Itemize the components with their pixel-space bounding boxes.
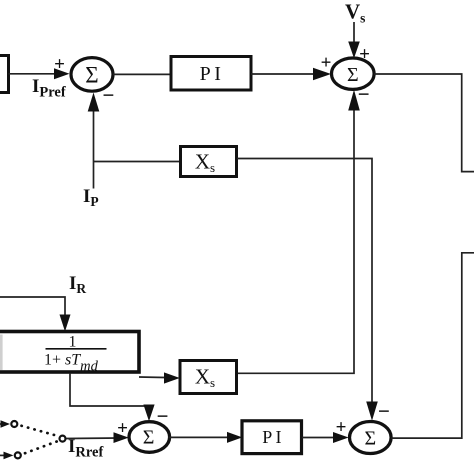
switch input 1 node (open dot) bbox=[11, 421, 17, 427]
arrowhead into S1 bbox=[54, 68, 70, 79]
arrowhead V_s into S2 (+) bbox=[348, 42, 360, 59]
arrowhead PI2 into S4 (+) bbox=[333, 432, 349, 443]
arrowhead into PI2 bbox=[227, 432, 242, 443]
wire: I_R from left edge, down into TF block bbox=[0, 297, 65, 322]
switch input 1 (wire + arrowhead) bbox=[0, 423, 4, 425]
svg-text:+: + bbox=[117, 418, 128, 439]
summing junction S1 bbox=[71, 58, 113, 92]
svg-text:−: − bbox=[358, 82, 370, 106]
wire: I_P vertical into S1 bbox=[93, 100, 95, 189]
block PI1 (PI controller) bbox=[171, 57, 251, 91]
wire: TF output to Xs2 bbox=[139, 376, 171, 379]
svg-text:−: − bbox=[378, 399, 390, 423]
wire: I_P branch to gain Xs1 bbox=[94, 161, 181, 163]
svg-text:PI: PI bbox=[200, 63, 225, 85]
svg-text:Σ: Σ bbox=[85, 63, 98, 88]
wire: S4 output to right edge bbox=[391, 253, 474, 438]
wire: input block to summer S1 bbox=[9, 73, 61, 75]
wire: TF branch down to S3 (minus path) bbox=[70, 373, 149, 412]
svg-text:+: + bbox=[54, 54, 65, 75]
svg-text:PI: PI bbox=[262, 427, 284, 447]
block PI2 (PI controller) bbox=[242, 421, 302, 454]
wire: S2 output to right edge bbox=[374, 74, 474, 172]
wire: PI1 to S2 bbox=[251, 73, 322, 75]
arrowhead I_R into TF block bbox=[60, 315, 71, 332]
dotted selector line from input 1 to common node bbox=[22, 426, 57, 436]
summing junction S3 bbox=[129, 422, 170, 453]
arrowhead I_Rref into S3 (+) bbox=[114, 432, 129, 443]
switch common node (open dot) bbox=[60, 436, 66, 442]
arrowhead PI1 into S2 (+) bbox=[313, 68, 331, 81]
wire: S1 to PI1 bbox=[113, 73, 171, 75]
arrowhead I_P into S1 (minus) bbox=[88, 93, 100, 112]
summing junction S4 bbox=[350, 422, 392, 454]
switch input 2 (wire + arrowhead) bbox=[0, 454, 6, 456]
wire: Xs2 output up into S2 (vertical) bbox=[237, 104, 354, 373]
wire: I_Rref to S3 bbox=[67, 437, 121, 440]
dotted selector line from input 2 to common node bbox=[25, 441, 57, 453]
input block (cut off at left edge) bbox=[0, 56, 9, 93]
wire: Xs1 output to S4 top (minus path) bbox=[237, 159, 372, 412]
switch input 2 node (open dot) bbox=[15, 452, 21, 458]
svg-text:Σ: Σ bbox=[364, 428, 376, 450]
block Xs1 (gain X_s top) bbox=[181, 147, 237, 177]
summing junction S2 bbox=[332, 58, 375, 89]
arrowhead into Xs2 bbox=[164, 372, 180, 383]
wire: S3 to PI2 bbox=[169, 436, 235, 438]
arrowhead Xs2 into S2 (minus) bbox=[348, 90, 360, 111]
svg-text:Σ: Σ bbox=[143, 427, 155, 449]
block Xs2 (gain X_s bottom) bbox=[180, 361, 237, 394]
svg-text:+: + bbox=[321, 53, 332, 74]
svg-text:1: 1 bbox=[69, 334, 77, 351]
wire: V_s down into S2 bbox=[353, 22, 355, 50]
arrowhead TF branch into S3 (minus) bbox=[143, 405, 154, 422]
wire: PI2 to S4 bbox=[302, 437, 340, 439]
arrowhead Xs1 into S4 (minus) bbox=[366, 402, 378, 421]
svg-text:−: − bbox=[103, 83, 115, 107]
svg-text:+: + bbox=[336, 417, 347, 438]
block TF 1/(1+sT_md) measurement filter bbox=[0, 332, 139, 375]
